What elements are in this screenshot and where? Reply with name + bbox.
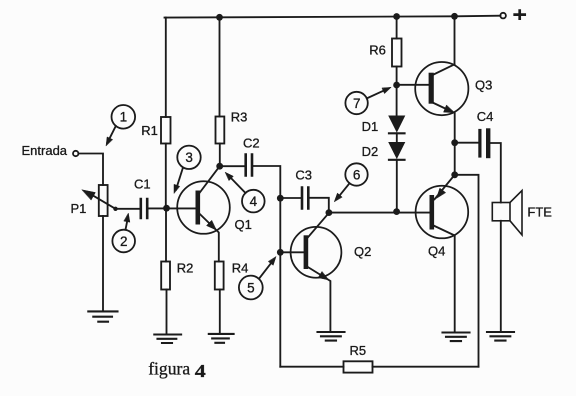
node C3 branch (277, 195, 284, 202)
potentiometer P1 body (99, 185, 108, 216)
wire node to C2 (220, 165, 245, 167)
svg-text:D1: D1 (362, 119, 379, 134)
node rail R6 (393, 13, 400, 20)
ground (R4) (209, 334, 234, 343)
svg-text:5: 5 (247, 280, 255, 295)
svg-text:Q2: Q2 (354, 244, 371, 259)
transistor Q3 (415, 62, 468, 143)
node circle 5 (239, 257, 276, 300)
wire output to feedback (455, 175, 479, 367)
svg-text:Entrada: Entrada (22, 143, 68, 158)
diode D2 (389, 143, 405, 160)
svg-text:4: 4 (250, 194, 258, 209)
wire D1 to D2 (396, 133, 398, 142)
wire rail to R3 (219, 17, 221, 116)
ground (P1) (88, 311, 117, 321)
wire node7 to D1 (396, 85, 398, 116)
node C4 branch (451, 139, 458, 146)
wire C4 branch (455, 142, 479, 144)
svg-text:R4: R4 (232, 261, 249, 276)
wire R1 upper segment (165, 18, 167, 118)
wire speaker to ground (500, 221, 502, 332)
node circle 4 (225, 172, 264, 212)
ground (FTE) (487, 332, 514, 341)
capacitor C4 (480, 131, 488, 157)
svg-text:1: 1 (120, 110, 128, 125)
svg-text:Q3: Q3 (475, 78, 492, 93)
transistor Q2 (291, 213, 342, 332)
resistor R5 (344, 361, 373, 372)
node collector/C2 junction (216, 163, 223, 170)
transistor Q1 (177, 167, 230, 262)
svg-text:C2: C2 (243, 136, 260, 151)
node Q2 collector junction (326, 209, 333, 216)
capacitor C2 (246, 155, 252, 176)
resistor R2 (161, 262, 170, 290)
wire R4 to ground (219, 290, 221, 334)
svg-text:C3: C3 (295, 167, 312, 182)
node D2 bottom junction (393, 208, 400, 215)
node circle 6 (334, 163, 367, 201)
supply terminal circle (500, 13, 506, 19)
svg-text:6: 6 (353, 167, 361, 182)
speaker FTE (492, 191, 522, 235)
wire feedback bottom right (373, 366, 479, 368)
wire R6 to node 7 (396, 67, 398, 86)
svg-text:R2: R2 (177, 261, 194, 276)
wire D2 to Q4 base node (396, 160, 398, 212)
capacitor C1 (141, 199, 147, 218)
svg-text:4: 4 (195, 361, 206, 381)
ground (Q4) (443, 333, 470, 342)
transistor Q4 (416, 175, 469, 333)
resistor R4 (215, 262, 224, 290)
node P1 wiper tap (113, 207, 117, 211)
node top rail / R3 (216, 14, 223, 21)
wire P1 lower to ground (102, 216, 104, 311)
svg-text:Q1: Q1 (235, 217, 252, 232)
node Q2 base branch (277, 249, 284, 256)
wire emitter line down to output node (454, 143, 456, 175)
ground (Q2) (318, 332, 345, 341)
wire rail to R6 (396, 17, 398, 39)
svg-text:3: 3 (185, 150, 193, 165)
node 7 junction (393, 82, 400, 89)
resistor R1 (161, 117, 171, 144)
node circle 7 (345, 87, 391, 114)
wire C2 to vertical node line (253, 166, 280, 367)
svg-text:FTE: FTE (527, 204, 552, 219)
diode D1 (389, 116, 405, 133)
plus symbol (515, 11, 525, 19)
wire node7 to Q3 base (397, 84, 429, 86)
resistor R6 (392, 39, 402, 67)
potentiometer P1 wiper arrow (88, 192, 116, 209)
node output junction (451, 171, 458, 178)
wire R1 to node 3 junction (165, 144, 167, 209)
wire node to R2 (165, 208, 167, 262)
input terminal circle (73, 151, 78, 156)
node rail Q3 collector (451, 13, 458, 20)
ground (R2) (154, 335, 181, 344)
wire R5 to node line (280, 366, 343, 368)
svg-text:R6: R6 (369, 43, 386, 58)
svg-text:D2: D2 (362, 144, 379, 159)
svg-text:figura: figura (148, 358, 190, 378)
svg-text:C1: C1 (134, 177, 151, 192)
wire C1 to Q1 base (149, 207, 196, 209)
wire wiper to C1 (116, 208, 140, 210)
node circle 1 (106, 105, 135, 146)
svg-text:P1: P1 (71, 201, 87, 216)
wire Q2 base (280, 251, 303, 253)
wire rail to Q3 collector (454, 16, 456, 64)
svg-text:R1: R1 (141, 123, 158, 138)
svg-text:Q4: Q4 (428, 244, 445, 259)
node circle 2 (112, 213, 135, 252)
wire C4 to speaker (491, 143, 501, 203)
svg-text:2: 2 (120, 234, 128, 249)
svg-text:C4: C4 (477, 109, 494, 124)
wire C3 to Q2 collector node (310, 198, 329, 213)
node circle 3 (174, 146, 201, 194)
wire top supply rail (165, 16, 501, 18)
svg-text:R3: R3 (231, 110, 248, 125)
wire R3 to collector node (219, 144, 221, 167)
wire input to P1 (79, 154, 104, 186)
resistor R3 (216, 117, 225, 144)
wire Q2 collector to Q4 base (329, 212, 430, 214)
node junction C1/R1/base (163, 205, 170, 212)
svg-text:R5: R5 (350, 343, 367, 358)
capacitor C3 (302, 188, 308, 209)
svg-text:7: 7 (353, 96, 361, 111)
wire node to C3 (280, 197, 300, 199)
wire R2 to ground (166, 290, 168, 335)
